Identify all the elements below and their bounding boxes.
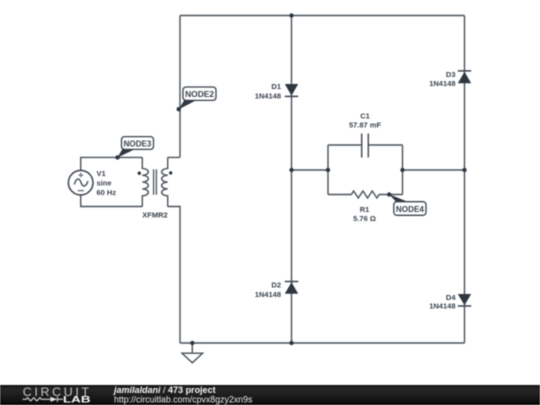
svg-text:R1: R1 (360, 205, 370, 214)
svg-text:sine: sine (97, 179, 112, 188)
svg-text:D1: D1 (271, 82, 281, 91)
svg-text:NODE3: NODE3 (124, 139, 152, 149)
svg-text:XFMR2: XFMR2 (142, 211, 167, 220)
svg-text:60 Hz: 60 Hz (97, 188, 117, 197)
svg-text:NODE2: NODE2 (185, 89, 214, 99)
svg-text:http://circuitlab.com/cpvx8gzy: http://circuitlab.com/cpvx8gzy2xn9s (114, 394, 253, 404)
svg-text:57.87 mF: 57.87 mF (349, 120, 382, 129)
svg-text:5.76 Ω: 5.76 Ω (353, 214, 376, 223)
svg-text:D2: D2 (271, 281, 281, 290)
svg-text:V1: V1 (97, 169, 106, 178)
svg-text:1N4148: 1N4148 (429, 79, 455, 88)
svg-text:NODE4: NODE4 (396, 204, 424, 214)
svg-text:LAB: LAB (63, 394, 91, 404)
svg-text:1N4148: 1N4148 (429, 302, 455, 311)
svg-text:C1: C1 (360, 111, 370, 120)
svg-text:1N4148: 1N4148 (255, 91, 281, 100)
svg-text:1N4148: 1N4148 (255, 290, 281, 299)
